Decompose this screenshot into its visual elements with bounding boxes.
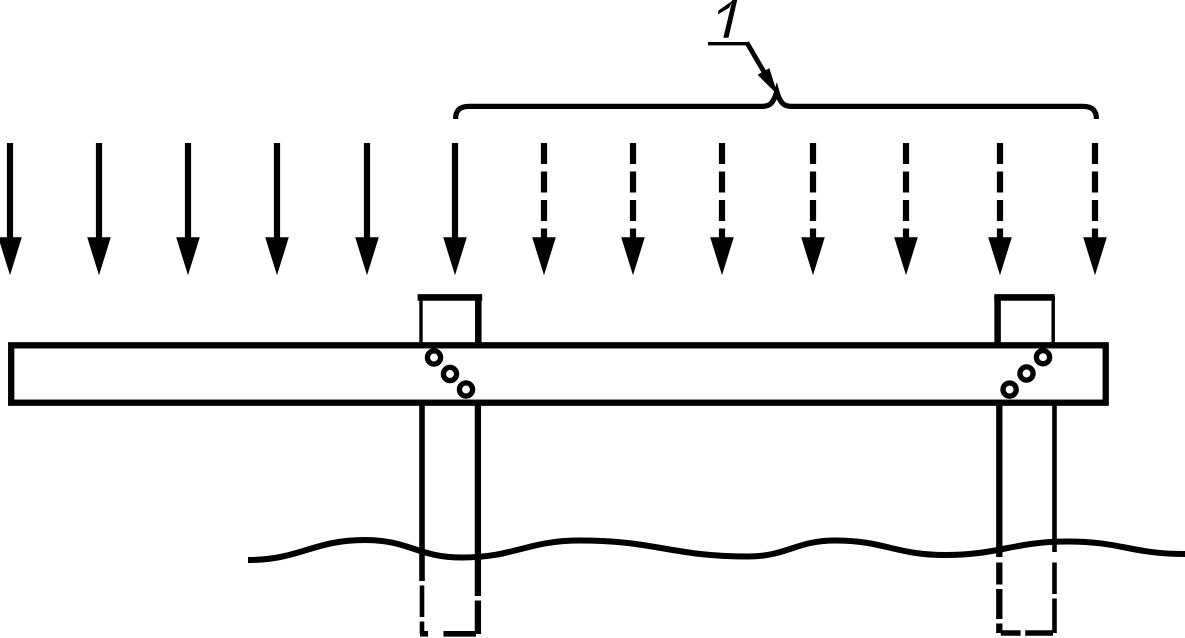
left nail group: hole 2 <box>443 367 456 380</box>
dashed load arrow 8 <box>621 143 645 275</box>
leader line of label 1 <box>708 42 749 45</box>
left nail group: hole 1 <box>427 351 440 364</box>
right pile hidden part (dashed) <box>999 563 1054 634</box>
left pile above cap <box>418 296 483 348</box>
solid load arrow 2 <box>87 143 111 275</box>
dashed load arrow 9 <box>710 143 734 275</box>
left pile hidden part (dashed) <box>420 586 478 635</box>
solid load arrow 6 <box>443 143 467 275</box>
solid load arrow 5 <box>355 143 379 275</box>
dashed load arrow 12 <box>988 143 1012 275</box>
left nail group: hole 3 <box>459 383 472 396</box>
right pile below cap, solid to water line <box>999 400 1054 557</box>
dashed load arrow 13 <box>1083 143 1107 275</box>
dashed load arrow 10 <box>801 143 825 275</box>
right nail group: hole 2 <box>1020 367 1033 380</box>
solid load arrow 3 <box>176 143 200 275</box>
left pile below cap, solid to water line <box>422 400 478 596</box>
leader arrowhead <box>758 68 778 95</box>
solid load arrow 4 <box>265 143 289 275</box>
water/ground wavy line <box>248 540 1185 560</box>
right nail group: hole 1 <box>1003 383 1016 396</box>
right pile above cap <box>994 296 1054 348</box>
dashed load arrow 11 <box>894 143 918 275</box>
brace (curly bracket) over dashed-load zone <box>456 92 1097 120</box>
solid load arrow 1 <box>0 143 22 275</box>
right nail group: hole 3 <box>1036 351 1049 364</box>
load arrows group <box>0 143 1107 275</box>
label 1 <box>718 0 737 38</box>
pile cap beam <box>11 345 1106 402</box>
dashed load arrow 7 <box>532 143 556 275</box>
